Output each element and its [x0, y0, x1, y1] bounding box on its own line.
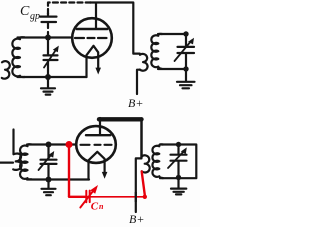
svg-text:gp: gp	[30, 11, 40, 22]
svg-text:C: C	[20, 4, 30, 19]
svg-text:n: n	[99, 202, 104, 211]
svg-text:C: C	[91, 201, 99, 213]
svg-text:B+: B+	[129, 212, 144, 226]
svg-text:B+: B+	[128, 96, 143, 110]
